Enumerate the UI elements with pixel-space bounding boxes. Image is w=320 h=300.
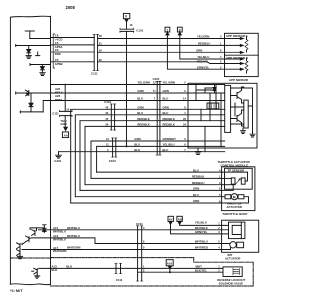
svg-text:RSD: RSD bbox=[55, 52, 61, 56]
svg-text:RED/BLU: RED/BLU bbox=[198, 42, 210, 46]
svg-text:26: 26 bbox=[99, 58, 102, 62]
svg-text:YEL/GRN: YEL/GRN bbox=[197, 35, 209, 39]
svg-text:21: 21 bbox=[99, 41, 102, 45]
svg-text:TP SENSOR: TP SENSOR bbox=[228, 168, 246, 172]
svg-text:RED/YEL: RED/YEL bbox=[197, 60, 209, 64]
svg-text:THROTTLE BODY: THROTTLE BODY bbox=[222, 212, 248, 216]
svg-text:BLK: BLK bbox=[134, 148, 140, 152]
svg-text:C101: C101 bbox=[136, 29, 143, 33]
svg-text:GRN/YEL: GRN/YEL bbox=[195, 230, 208, 234]
svg-text:C103: C103 bbox=[109, 159, 116, 163]
svg-text:MRM: MRM bbox=[55, 98, 62, 102]
svg-text:18: 18 bbox=[99, 34, 102, 38]
svg-text:GRN: GRN bbox=[196, 49, 202, 53]
svg-text:GRN: GRN bbox=[193, 187, 199, 191]
svg-text:SOLENOID VALVE: SOLENOID VALVE bbox=[219, 281, 243, 285]
svg-text:RED/BLK: RED/BLK bbox=[137, 123, 149, 127]
svg-text:BLU: BLU bbox=[163, 97, 169, 101]
svg-text:GRN/YEL: GRN/YEL bbox=[197, 65, 210, 69]
svg-text:YEL/BLU: YEL/BLU bbox=[163, 143, 175, 147]
svg-text:C101: C101 bbox=[153, 77, 160, 81]
svg-text:WHT/GRN: WHT/GRN bbox=[67, 246, 80, 250]
svg-text:GRN: GRN bbox=[60, 122, 66, 126]
svg-text:C111: C111 bbox=[52, 111, 59, 115]
svg-text:WHT/GRN: WHT/GRN bbox=[53, 249, 66, 253]
svg-text:BLU: BLU bbox=[163, 148, 169, 152]
svg-text:YEL/BLU: YEL/BLU bbox=[197, 55, 209, 59]
svg-text:AY: AY bbox=[169, 217, 173, 221]
svg-text:GRN: GRN bbox=[163, 105, 169, 109]
svg-text:YEL/GRN: YEL/GRN bbox=[137, 81, 149, 85]
svg-text:ACTUATOR: ACTUATOR bbox=[227, 205, 242, 209]
svg-text:WHT/BLU: WHT/BLU bbox=[67, 226, 80, 230]
svg-text:GRN: GRN bbox=[163, 89, 169, 93]
svg-text:RED/BLK: RED/BLK bbox=[163, 117, 175, 121]
svg-text:GRN: GRN bbox=[134, 137, 140, 141]
svg-text:WHT/BLU: WHT/BLU bbox=[53, 238, 66, 242]
svg-text:8: 8 bbox=[179, 28, 181, 32]
svg-text:C111: C111 bbox=[91, 72, 98, 76]
svg-text:WHT/RED: WHT/RED bbox=[195, 246, 208, 250]
svg-text:APP SENSOR B: APP SENSOR B bbox=[226, 56, 248, 60]
svg-text:A16: A16 bbox=[167, 261, 173, 265]
svg-text:YEL/GRN: YEL/GRN bbox=[163, 81, 175, 85]
svg-text:BLK: BLK bbox=[66, 265, 72, 269]
svg-text:WHT/BLU: WHT/BLU bbox=[195, 240, 208, 244]
svg-text:GRN: GRN bbox=[193, 199, 199, 203]
svg-text:M: M bbox=[233, 195, 236, 199]
svg-text:CONTROL MODULE: CONTROL MODULE bbox=[221, 163, 249, 167]
svg-text:ACTUATOR: ACTUATOR bbox=[225, 257, 240, 261]
svg-text:APSB: APSB bbox=[55, 62, 63, 66]
svg-text:AB: AB bbox=[178, 217, 182, 221]
svg-text:GRN: GRN bbox=[137, 105, 143, 109]
svg-text:RED/BLU: RED/BLU bbox=[192, 181, 204, 185]
svg-text:BLU: BLU bbox=[134, 143, 140, 147]
svg-text:BLK/YEL: BLK/YEL bbox=[195, 268, 207, 272]
svg-text:C111: C111 bbox=[116, 278, 123, 282]
svg-text:RED/BLK: RED/BLK bbox=[137, 117, 149, 121]
svg-text:BLU: BLU bbox=[193, 168, 199, 172]
svg-text:RED/BLK: RED/BLK bbox=[192, 175, 204, 179]
svg-text:RED/BLK: RED/BLK bbox=[163, 123, 175, 127]
svg-text:APP SENSOR A: APP SENSOR A bbox=[226, 34, 249, 38]
svg-text:BLU: BLU bbox=[163, 111, 169, 115]
svg-text:BLU: BLU bbox=[137, 97, 143, 101]
svg-text:16: 16 bbox=[99, 48, 102, 52]
svg-text:2008: 2008 bbox=[66, 5, 76, 10]
svg-text:1: 1 bbox=[166, 28, 168, 32]
svg-text:C101: C101 bbox=[104, 100, 111, 104]
svg-text:G101: G101 bbox=[54, 159, 61, 163]
svg-text:YEL/BLU: YEL/BLU bbox=[195, 220, 207, 224]
svg-text:BLU: BLU bbox=[193, 193, 199, 197]
svg-text:*2: M/T: *2: M/T bbox=[10, 289, 23, 293]
svg-text:WHT/BLU: WHT/BLU bbox=[67, 234, 80, 238]
svg-text:GRN: GRN bbox=[137, 89, 143, 93]
svg-text:C101: C101 bbox=[136, 222, 143, 226]
svg-text:GRN/WHT: GRN/WHT bbox=[163, 137, 177, 141]
svg-text:BLK: BLK bbox=[52, 268, 58, 272]
svg-text:APP SENSOR: APP SENSOR bbox=[229, 78, 249, 82]
svg-text:BLU: BLU bbox=[137, 111, 143, 115]
svg-text:WHT/BLU: WHT/BLU bbox=[53, 230, 66, 234]
